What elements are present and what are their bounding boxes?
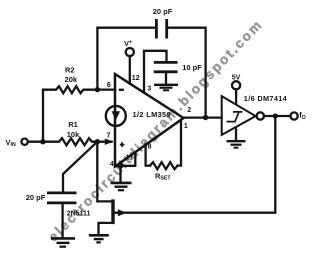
wire pin 3 bracket	[144, 51, 167, 93]
arrow gate Q1	[118, 209, 127, 216]
transistor Q1 2N5111	[67, 199, 115, 224]
node R1 input junction	[95, 139, 100, 144]
wire inverting input pin 6	[97, 88, 115, 90]
capacitor C2 10 pF	[154, 62, 202, 72]
ground C3	[51, 204, 75, 247]
node R2 feedback junction	[95, 87, 100, 92]
wire top feedback right	[168, 28, 206, 118]
wire top feedback left	[97, 28, 155, 90]
svg-text:20 pF: 20 pF	[153, 7, 173, 16]
terminal 5V	[232, 75, 241, 90]
pin 12 label	[132, 75, 140, 82]
resistor RSET	[150, 162, 178, 181]
watermark text	[45, 18, 264, 245]
minus symbol	[119, 89, 124, 91]
pin 3 label	[147, 85, 151, 92]
node pin 4 11 junction	[115, 163, 123, 169]
ground transistor source	[89, 235, 109, 242]
svg-text:8: 8	[148, 143, 152, 150]
wire output pin 2	[184, 116, 222, 118]
node output feedback junction	[273, 113, 278, 118]
pin 1 label	[184, 123, 188, 130]
resistor R1 10k	[28, 120, 112, 145]
svg-text:2: 2	[187, 107, 191, 114]
ground op-amp pin 4	[111, 166, 132, 190]
capacitor C1 20 pF top	[153, 7, 173, 39]
pin 4 label	[110, 161, 114, 168]
wire pin 11 loop	[121, 153, 136, 166]
wire inverter output	[264, 115, 291, 117]
ground 10 pF	[154, 73, 178, 90]
terminal V+	[124, 39, 134, 56]
svg-text:12: 12	[132, 75, 140, 82]
schmitt hysteresis symbol	[227, 112, 243, 122]
svg-text:10k: 10k	[67, 130, 80, 139]
wire pin 8 lead	[146, 144, 150, 165]
resistor R2 20k	[43, 66, 97, 94]
svg-text:20k: 20k	[65, 75, 78, 84]
svg-text:R1: R1	[68, 120, 78, 129]
inverter output bubble	[257, 112, 264, 119]
svg-text:6: 6	[107, 82, 111, 89]
pin 11 label	[126, 155, 134, 162]
terminal fO	[291, 111, 306, 122]
pin 6 label	[107, 82, 111, 89]
plus symbol	[120, 142, 125, 147]
svg-text:1/2 LM359: 1/2 LM359	[133, 110, 171, 119]
node R1 R2 junction	[40, 139, 45, 144]
wire pin 1 lead	[178, 120, 182, 166]
wire transistor drain	[97, 142, 111, 202]
wire diagonal to C3	[63, 142, 97, 192]
wire left branch	[42, 90, 44, 142]
pin 8 label	[148, 143, 152, 150]
pin 2 label	[187, 107, 191, 114]
capacitor C3 20 pF bottom	[26, 193, 77, 203]
svg-text:R2: R2	[65, 66, 75, 75]
inverter U2 1/6 DM7414	[222, 94, 288, 135]
terminal VIN	[6, 138, 28, 148]
svg-text:7: 7	[107, 132, 111, 139]
svg-text:2N5111: 2N5111	[67, 211, 91, 218]
svg-text:1: 1	[184, 123, 188, 130]
current source mirror in U1	[106, 106, 126, 126]
svg-text:20 pF: 20 pF	[26, 193, 46, 202]
node output junction	[203, 115, 208, 120]
svg-text:5V: 5V	[232, 75, 241, 82]
wire transistor source	[99, 223, 112, 235]
op-amp U1 1/2 LM359	[115, 74, 184, 167]
svg-text:11: 11	[126, 155, 134, 162]
pin 7 label	[107, 132, 111, 139]
ground inverter	[227, 129, 246, 148]
svg-text:10 pF: 10 pF	[182, 63, 202, 72]
svg-text:1/6 DM7414: 1/6 DM7414	[244, 94, 288, 103]
svg-text:4: 4	[110, 161, 114, 168]
wire gate feedback	[115, 116, 276, 213]
arrow into noninverting input	[105, 139, 114, 145]
svg-text:3: 3	[147, 85, 151, 92]
wire 5V supply	[235, 89, 237, 103]
wire pin 12 supply	[129, 56, 131, 84]
